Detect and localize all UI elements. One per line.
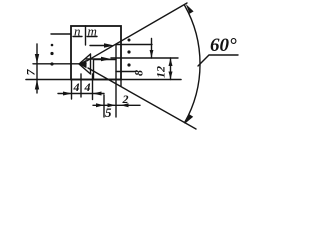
svg-text:4: 4 — [73, 80, 80, 94]
svg-text:60°: 60° — [210, 35, 237, 56]
svg-text:2: 2 — [122, 92, 129, 106]
svg-text:7: 7 — [24, 69, 38, 76]
svg-text:4: 4 — [84, 80, 91, 94]
svg-text:n: n — [74, 24, 81, 39]
svg-text:5: 5 — [105, 105, 112, 120]
svg-text:8: 8 — [132, 70, 146, 76]
svg-text:m: m — [88, 24, 97, 39]
svg-text:12: 12 — [154, 66, 168, 78]
